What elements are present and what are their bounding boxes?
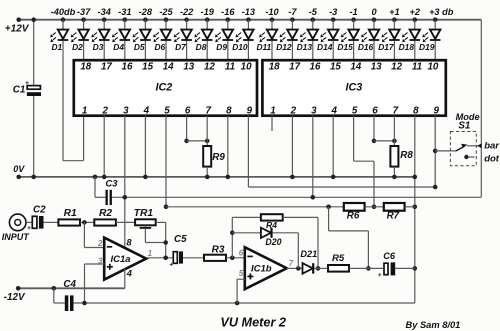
- wire IC1a pin3 to C4 node: [85, 264, 105, 303]
- svg-text:18: 18: [269, 61, 280, 72]
- svg-text:6: 6: [239, 248, 244, 257]
- wire IC2 pin2 to 0V: [102, 116, 107, 180]
- LED D17: [378, 17, 399, 60]
- svg-text:11: 11: [412, 61, 422, 72]
- svg-text:5: 5: [164, 106, 170, 117]
- wire S-bend signal to C6 node: [329, 207, 371, 271]
- svg-text:By Sam 8/01: By Sam 8/01: [406, 320, 461, 330]
- svg-text:+: +: [25, 80, 29, 87]
- svg-text:-12V: -12V: [4, 292, 26, 303]
- label -25: [159, 7, 173, 17]
- svg-text:D3: D3: [93, 42, 104, 52]
- op-amp driver IC3: [262, 60, 445, 116]
- svg-text:11: 11: [225, 61, 235, 72]
- credit By Sam 8/01: [406, 320, 461, 330]
- wire IC3 pin6-pin7 link: [372, 116, 397, 146]
- LED D9: [215, 17, 233, 60]
- svg-text:7: 7: [393, 106, 399, 117]
- resistor R8: [390, 146, 413, 179]
- svg-text:13: 13: [371, 61, 382, 72]
- wire D1 cathode to IC2 pin 1: [63, 116, 84, 161]
- svg-text:1: 1: [270, 106, 275, 117]
- svg-text:R8: R8: [400, 150, 413, 161]
- svg-text:D11: D11: [256, 42, 271, 52]
- svg-text:-28: -28: [139, 7, 153, 17]
- label -10: [265, 7, 279, 17]
- label -16: [221, 7, 235, 17]
- svg-text:C6: C6: [383, 251, 396, 261]
- resistor R5: [328, 253, 384, 271]
- wire IC3 pin8 ground column: [413, 116, 418, 303]
- svg-text:3: 3: [123, 106, 129, 117]
- svg-text:bar: bar: [484, 141, 500, 152]
- svg-text:-10: -10: [265, 7, 279, 17]
- -12V supply rail: [4, 286, 125, 303]
- svg-text:D9: D9: [216, 42, 227, 52]
- wire IC2 pin5 to signal line: [164, 116, 169, 209]
- label -31: [118, 7, 131, 17]
- svg-text:IC3: IC3: [346, 82, 363, 94]
- svg-text:2: 2: [290, 106, 297, 117]
- svg-text:7: 7: [205, 106, 211, 117]
- LED D2: [71, 17, 89, 60]
- wire R7 to ground column: [405, 206, 415, 208]
- svg-text:D4: D4: [113, 42, 124, 52]
- LED D7: [174, 17, 192, 60]
- capacitor C5: [169, 234, 204, 268]
- svg-text:R5: R5: [332, 253, 345, 264]
- op-amp IC1b: [239, 247, 294, 289]
- svg-text:IC2: IC2: [156, 82, 173, 94]
- svg-text:-34: -34: [98, 7, 111, 17]
- capacitor C6: [378, 251, 415, 279]
- svg-text:-5: -5: [309, 7, 318, 17]
- svg-text:D14: D14: [317, 42, 333, 52]
- op-amp driver IC2: [74, 60, 257, 116]
- svg-text:2: 2: [97, 239, 103, 248]
- LED D10: [232, 17, 253, 60]
- title VU Meter 2: [220, 315, 286, 329]
- svg-text:15: 15: [142, 61, 153, 72]
- label -13: [242, 7, 255, 17]
- LED D6: [153, 17, 171, 60]
- svg-text:8: 8: [413, 106, 419, 117]
- wire IC1a output: [146, 255, 173, 260]
- svg-text:D1: D1: [51, 42, 62, 52]
- svg-text:+1: +1: [389, 7, 399, 17]
- svg-text:-25: -25: [159, 7, 173, 17]
- svg-text:R9: R9: [212, 152, 225, 163]
- svg-text:D13: D13: [297, 42, 313, 52]
- trimmer TR1: [134, 208, 168, 258]
- svg-text:+: +: [27, 225, 31, 232]
- svg-text:+: +: [378, 272, 382, 279]
- wire IC2 pin9 mode line: [248, 116, 435, 187]
- label 0: [371, 7, 377, 17]
- resistor R7: [384, 203, 405, 222]
- svg-text:D19: D19: [419, 42, 435, 52]
- resistor R6: [344, 203, 365, 222]
- LED D16: [358, 17, 379, 60]
- svg-text:12: 12: [391, 61, 402, 72]
- svg-text:VU Meter 2: VU Meter 2: [220, 315, 286, 329]
- LED D19: [419, 17, 440, 60]
- svg-text:15: 15: [330, 61, 341, 72]
- svg-text:8: 8: [226, 106, 232, 117]
- label -19: [201, 7, 215, 17]
- LED D3: [91, 17, 109, 60]
- svg-text:16: 16: [310, 61, 321, 72]
- wire IC2 pin8 to 0V: [226, 116, 231, 180]
- svg-text:4: 4: [330, 106, 337, 117]
- wire IC3 pin4 to 0V: [331, 116, 336, 180]
- wire IC3 pin9 to switch: [433, 116, 438, 190]
- svg-text:INPUT: INPUT: [2, 232, 31, 242]
- diode D21: [300, 249, 328, 274]
- LED D11: [256, 17, 277, 60]
- svg-text:+3 db: +3 db: [429, 7, 454, 17]
- svg-text:D15: D15: [337, 42, 353, 52]
- label -34: [98, 7, 111, 17]
- svg-text:4: 4: [143, 106, 150, 117]
- svg-text:4: 4: [126, 268, 133, 278]
- label -28: [139, 7, 153, 17]
- LED D5: [133, 17, 151, 60]
- svg-text:R6: R6: [347, 211, 360, 222]
- label -37: [77, 7, 91, 17]
- LED D4: [112, 17, 130, 60]
- svg-text:5: 5: [239, 269, 244, 278]
- wire IC2 pin3 / IC1a pin8 column: [123, 116, 128, 249]
- svg-text:14: 14: [163, 61, 174, 72]
- svg-text:IC1a: IC1a: [111, 254, 131, 265]
- svg-text:+: +: [169, 262, 173, 269]
- svg-text:D12: D12: [276, 42, 292, 52]
- wire IC1a pin4 to -12V: [124, 269, 126, 288]
- svg-text:C4: C4: [63, 279, 76, 290]
- svg-text:9: 9: [247, 106, 253, 117]
- capacitor C2: [27, 205, 58, 232]
- svg-text:17: 17: [289, 61, 300, 72]
- svg-text:-40db: -40db: [51, 7, 76, 17]
- svg-text:8: 8: [126, 237, 132, 247]
- svg-text:R3: R3: [212, 244, 225, 255]
- LED D15: [337, 17, 358, 60]
- svg-text:10: 10: [241, 61, 252, 72]
- svg-text:D21: D21: [300, 249, 317, 259]
- svg-text:R1: R1: [64, 208, 77, 219]
- LED D12: [276, 17, 297, 60]
- svg-text:13: 13: [183, 61, 194, 72]
- svg-text:-7: -7: [288, 7, 297, 17]
- node A R1/R2 junction: [82, 220, 104, 247]
- LED D18: [399, 17, 420, 60]
- svg-text:R7: R7: [387, 211, 400, 222]
- svg-text:D17: D17: [378, 42, 394, 52]
- LED D1: [50, 17, 68, 160]
- svg-text:9: 9: [433, 106, 439, 117]
- capacitor C1: [13, 17, 41, 179]
- svg-text:D7: D7: [175, 42, 186, 52]
- svg-text:0: 0: [371, 7, 377, 17]
- wire IC2 pin4 to 0V: [143, 116, 148, 180]
- svg-text:5: 5: [352, 106, 358, 117]
- wire IC3 pin1 stub: [271, 116, 273, 131]
- wire IC1b pin5 to ground return: [237, 279, 245, 303]
- wire IC3 pin3 to +12V line: [311, 116, 316, 200]
- op-amp IC1a: [97, 237, 153, 279]
- LED D13: [297, 17, 318, 60]
- svg-text:-22: -22: [180, 7, 194, 17]
- switch S1 mode selector: [435, 112, 500, 166]
- svg-text:1: 1: [148, 249, 153, 258]
- svg-text:18: 18: [80, 61, 91, 72]
- svg-text:+12V: +12V: [5, 23, 30, 34]
- wire IC2 pin6-pin7 link: [184, 116, 209, 146]
- label -3: [329, 7, 337, 17]
- svg-text:C1: C1: [13, 84, 26, 95]
- svg-text:-16: -16: [221, 7, 235, 17]
- svg-text:10: 10: [427, 61, 438, 72]
- svg-text:D16: D16: [358, 42, 374, 52]
- label -40db: [51, 7, 76, 17]
- svg-text:16: 16: [122, 61, 133, 72]
- svg-text:6: 6: [185, 106, 191, 117]
- INPUT jack: [2, 214, 33, 242]
- svg-text:14: 14: [350, 61, 361, 72]
- capacitor C4: [52, 279, 77, 311]
- svg-text:D8: D8: [196, 42, 207, 52]
- label -1: [350, 7, 358, 17]
- svg-text:-1: -1: [350, 7, 358, 17]
- wire IC3 pin5 jog to signal line: [354, 116, 377, 209]
- svg-text:+2: +2: [410, 7, 421, 17]
- LED D14: [317, 17, 338, 60]
- wire IC3 pin2 to 0V: [290, 116, 295, 180]
- svg-text:12: 12: [204, 61, 215, 72]
- svg-text:D18: D18: [399, 42, 415, 52]
- capacitor C3: [93, 175, 119, 205]
- LED D8: [194, 17, 212, 60]
- wire +12V right leg down: [480, 20, 482, 198]
- svg-text:D20: D20: [265, 237, 281, 247]
- diode D20: [232, 228, 298, 269]
- svg-text:3: 3: [311, 106, 317, 117]
- svg-text:D2: D2: [72, 42, 83, 52]
- wire IC1b output: [287, 266, 303, 271]
- wire detector signal line: [166, 205, 344, 210]
- svg-text:-31: -31: [118, 7, 131, 17]
- svg-text:D10: D10: [232, 42, 248, 52]
- label +1: [389, 7, 399, 17]
- svg-text:-37: -37: [77, 7, 91, 17]
- svg-text:C3: C3: [105, 178, 118, 189]
- resistor R3: [204, 244, 245, 261]
- resistor R9: [203, 146, 225, 179]
- svg-text:1: 1: [82, 106, 87, 117]
- label +3 db: [429, 7, 454, 17]
- svg-text:C2: C2: [33, 205, 46, 216]
- label -5: [309, 7, 318, 17]
- svg-text:0V: 0V: [13, 164, 25, 174]
- wire R6-R7: [365, 206, 384, 208]
- +12V supply rail: [5, 17, 482, 34]
- svg-text:-13: -13: [242, 7, 255, 17]
- label +2: [410, 7, 421, 17]
- svg-text:7: 7: [289, 259, 294, 268]
- svg-text:TR1: TR1: [134, 208, 154, 219]
- svg-text:-3: -3: [329, 7, 337, 17]
- label -22: [180, 7, 194, 17]
- svg-text:dot: dot: [484, 153, 500, 164]
- svg-text:D5: D5: [134, 42, 145, 52]
- svg-text:6: 6: [372, 106, 378, 117]
- resistor R2: [94, 208, 135, 226]
- svg-text:17: 17: [101, 61, 112, 72]
- svg-text:D6: D6: [154, 42, 165, 52]
- svg-text:S1: S1: [458, 120, 470, 131]
- wire +12V distribution line: [112, 196, 482, 198]
- svg-text:-19: -19: [201, 7, 215, 17]
- svg-text:R2: R2: [99, 208, 112, 219]
- ground 0V rail: [13, 164, 415, 179]
- svg-text:C5: C5: [174, 234, 187, 245]
- label -7: [288, 7, 297, 17]
- wire ground return bottom line: [74, 301, 415, 306]
- svg-text:2: 2: [101, 106, 108, 117]
- svg-text:IC1b: IC1b: [251, 264, 272, 275]
- resistor R1: [58, 208, 94, 226]
- resistor R4: [232, 214, 320, 271]
- wire feedback column to pin6: [230, 217, 235, 257]
